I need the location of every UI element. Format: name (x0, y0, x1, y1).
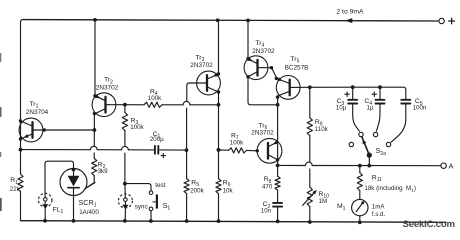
svg-text:2N3702: 2N3702 (251, 129, 274, 136)
svg-text:100n: 100n (413, 104, 427, 111)
svg-text:A: A (449, 161, 454, 170)
svg-text:3k9: 3k9 (98, 168, 109, 175)
svg-text:10k: 10k (223, 187, 234, 194)
svg-text:100k: 100k (130, 124, 144, 131)
svg-text:sync: sync (135, 204, 149, 211)
svg-text:100k: 100k (148, 95, 162, 102)
svg-text:1µ: 1µ (366, 104, 373, 111)
svg-text:10µ: 10µ (336, 104, 347, 111)
svg-text:BC257B: BC257B (285, 64, 309, 71)
svg-text:test: test (155, 182, 166, 189)
svg-text:110k: 110k (315, 126, 329, 133)
svg-text:10n: 10n (261, 208, 272, 215)
svg-text:2 to 9mA: 2 to 9mA (336, 9, 364, 16)
svg-text:SeekIC.com: SeekIC.com (403, 219, 455, 230)
svg-text:1M: 1M (319, 198, 328, 205)
svg-text:1A/400: 1A/400 (79, 209, 99, 216)
svg-text:2N3704: 2N3704 (26, 109, 49, 116)
svg-text:2N3702: 2N3702 (96, 84, 119, 91)
svg-text:1mA: 1mA (372, 203, 386, 210)
svg-text:200k: 200k (190, 187, 204, 194)
svg-text:200µ: 200µ (150, 136, 164, 143)
svg-text:f.s.d.: f.s.d. (372, 211, 386, 218)
svg-text:470: 470 (262, 184, 273, 191)
svg-text:2N3702: 2N3702 (252, 48, 275, 55)
svg-text:22k: 22k (10, 186, 21, 193)
svg-text:2N3702: 2N3702 (190, 62, 213, 69)
svg-text:100k: 100k (230, 140, 244, 147)
